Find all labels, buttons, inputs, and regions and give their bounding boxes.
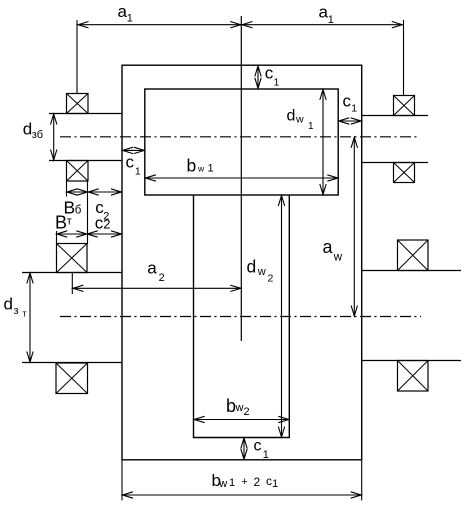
svg-text:1: 1 <box>135 166 141 178</box>
label bw2 <box>226 396 250 418</box>
label a1 right <box>319 3 334 27</box>
svg-text:1: 1 <box>274 77 280 89</box>
svg-text:a: a <box>323 237 334 257</box>
bearing B5 <box>394 96 415 116</box>
svg-text:1: 1 <box>328 14 334 26</box>
label d3t <box>4 295 27 319</box>
dimension bw2 <box>194 416 289 422</box>
svg-text:т: т <box>23 309 27 319</box>
axis shaft 1 <box>60 136 419 138</box>
dimension c1 right <box>339 118 362 124</box>
svg-text:зб: зб <box>32 129 43 141</box>
svg-text:w: w <box>235 402 244 414</box>
shaft 2 right <box>362 271 461 361</box>
svg-text:b: b <box>187 155 197 175</box>
svg-text:+: + <box>241 476 247 488</box>
label aw <box>323 237 343 264</box>
dimension c1 top <box>255 66 261 89</box>
gear center plane line <box>240 16 242 341</box>
label Bb <box>64 198 82 218</box>
dimension a2 <box>72 273 241 295</box>
dimension c2 upper <box>88 181 122 244</box>
label bw1 plus 2c1 <box>212 471 279 490</box>
svg-text:2: 2 <box>268 272 274 284</box>
label c1 bottom <box>254 438 269 462</box>
bearing B4 <box>56 363 88 394</box>
svg-text:т: т <box>67 216 72 228</box>
axis shaft 2 <box>60 316 421 318</box>
label Bt <box>55 213 72 233</box>
svg-text:1: 1 <box>272 478 278 490</box>
gear wheel 2 <box>194 195 290 438</box>
housing outline <box>122 65 362 460</box>
bearing B3 <box>57 244 88 273</box>
svg-text:c: c <box>254 438 262 455</box>
dimension dw1 <box>320 89 326 194</box>
svg-text:d: d <box>4 295 13 314</box>
shaft 1 left <box>49 114 122 161</box>
label a2 <box>147 258 164 284</box>
svg-text:b: b <box>226 396 236 416</box>
label c1 top <box>265 64 280 89</box>
bearing B7 <box>398 240 429 271</box>
label c1 right <box>343 92 358 115</box>
bearing B8 <box>398 361 429 392</box>
svg-text:1: 1 <box>229 477 235 489</box>
shaft 2 left <box>22 273 122 363</box>
svg-text:1: 1 <box>127 13 133 25</box>
gear wheel 1 <box>145 89 338 195</box>
dimension dw2 <box>278 195 284 437</box>
svg-text:В: В <box>55 213 67 233</box>
svg-text:1: 1 <box>208 162 214 174</box>
svg-text:w: w <box>218 478 227 490</box>
bearing B2 <box>67 161 89 182</box>
svg-text:w: w <box>197 163 205 173</box>
svg-text:c: c <box>343 92 352 111</box>
label dw1 <box>287 107 315 132</box>
dimension a1 right <box>242 20 404 96</box>
dimension a1 left <box>77 20 241 94</box>
dimension aw <box>351 137 357 316</box>
svg-text:1: 1 <box>263 449 269 461</box>
dimension c2 lower <box>87 231 122 237</box>
label bw1 <box>187 155 214 175</box>
dimension d3b <box>51 114 57 160</box>
svg-text:1: 1 <box>351 102 357 114</box>
dimension c1 bottom <box>241 438 247 460</box>
svg-text:c: c <box>265 64 274 83</box>
dimension bw1 plus 2c1 <box>122 460 362 501</box>
svg-text:2: 2 <box>244 406 250 418</box>
dimension d3t <box>27 273 33 362</box>
svg-text:d: d <box>247 257 257 277</box>
svg-text:з: з <box>14 305 19 317</box>
svg-text:2: 2 <box>103 217 110 232</box>
dimension Bb <box>67 181 89 197</box>
dimension c1 left <box>122 147 144 153</box>
svg-text:б: б <box>75 205 82 217</box>
svg-text:a: a <box>147 258 157 277</box>
svg-text:c: c <box>266 474 272 488</box>
svg-text:d: d <box>287 107 296 124</box>
bearing B1 <box>67 94 89 114</box>
svg-text:w: w <box>333 252 343 264</box>
bearing B6 <box>394 163 415 183</box>
label c2 lower <box>95 214 111 233</box>
svg-text:c: c <box>126 152 135 171</box>
shaft 1 right <box>362 116 428 163</box>
label c1 left <box>126 152 141 177</box>
svg-text:2: 2 <box>159 272 165 284</box>
dimension Bt <box>57 231 88 244</box>
svg-text:1: 1 <box>308 121 314 132</box>
dimension bw1 <box>145 175 338 181</box>
svg-text:2: 2 <box>254 475 261 489</box>
label d3b <box>23 120 43 141</box>
svg-text:w: w <box>295 113 304 125</box>
label c2 upper <box>95 198 109 223</box>
label dw2 <box>247 257 274 285</box>
label a1 left <box>118 2 133 25</box>
svg-text:w: w <box>257 266 266 278</box>
